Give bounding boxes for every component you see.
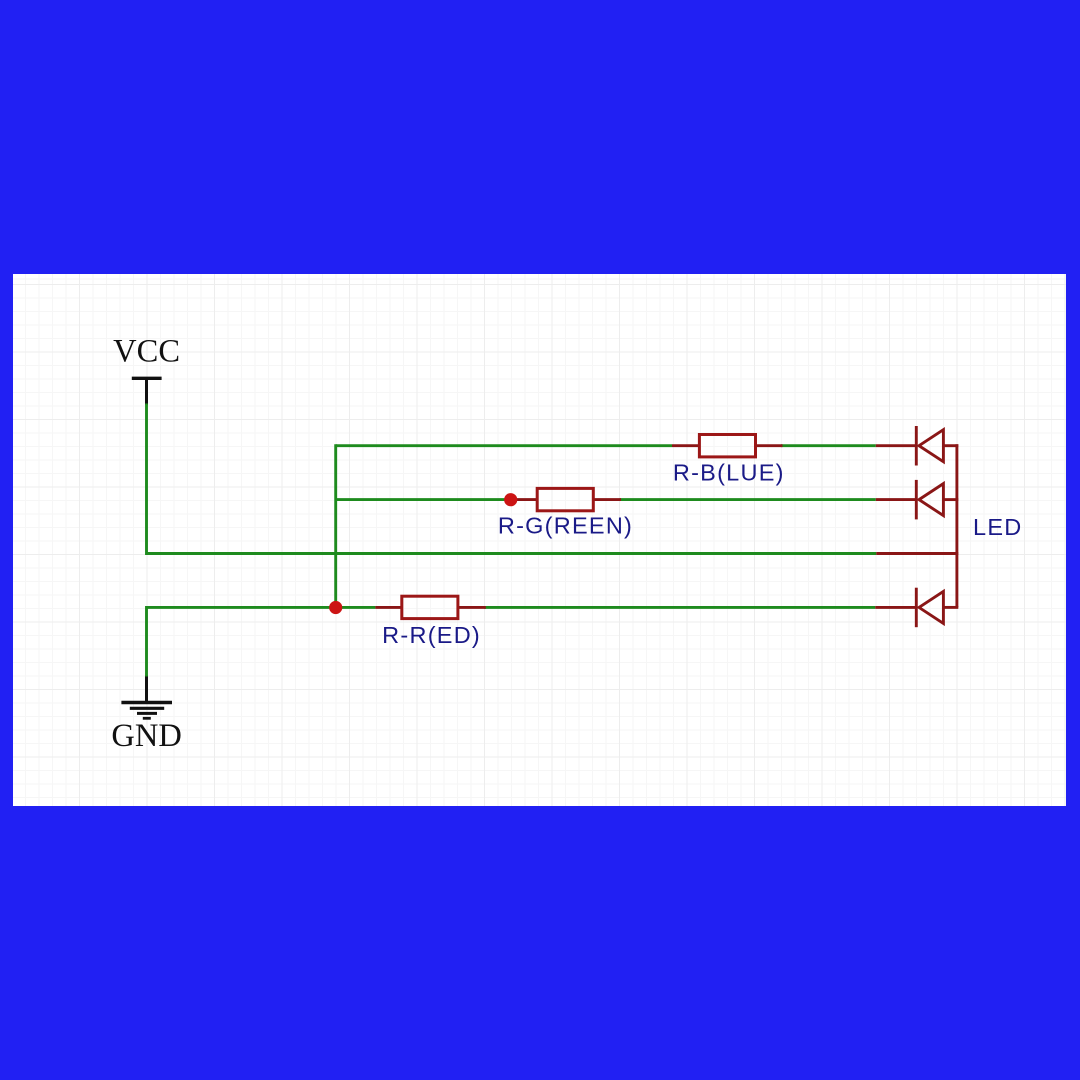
svg-text:LED: LED	[973, 514, 1022, 540]
svg-text:VCC: VCC	[113, 333, 180, 369]
svg-text:GND: GND	[111, 718, 181, 754]
svg-text:R-R(ED): R-R(ED)	[382, 622, 481, 648]
svg-text:R-G(REEN): R-G(REEN)	[498, 513, 633, 539]
svg-text:R-B(LUE): R-B(LUE)	[673, 460, 785, 486]
